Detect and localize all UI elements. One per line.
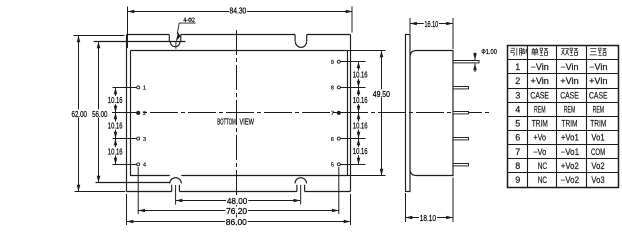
mounting notch top-right <box>295 35 307 48</box>
svg-text:Vo2: Vo2 <box>591 161 604 171</box>
svg-text:TRIM: TRIM <box>532 119 548 129</box>
dim 76.20 <box>138 210 339 212</box>
svg-text:7: 7 <box>515 147 520 157</box>
table header glyphs: san lu <box>590 49 598 55</box>
dim 62.00 extension lines <box>74 36 126 192</box>
mounting notch top-left <box>169 35 181 47</box>
dim 18.10 extension lines <box>406 178 454 223</box>
svg-text:6: 6 <box>331 137 334 143</box>
table pin number column <box>515 62 520 185</box>
svg-text:Vo3: Vo3 <box>591 175 604 185</box>
svg-text:−Vin: −Vin <box>589 62 607 72</box>
dim 49.50 label <box>372 90 390 99</box>
table header glyphs: 引脚 <box>511 48 527 56</box>
pin 6 <box>331 137 340 143</box>
side pin 8 <box>453 87 469 89</box>
side view body <box>410 51 453 176</box>
flange outline bottom view <box>127 35 351 192</box>
svg-text:3: 3 <box>515 91 520 101</box>
dim 62.00 label <box>71 109 88 119</box>
svg-text:2: 2 <box>515 76 520 86</box>
pin 4 <box>137 163 146 169</box>
side pin 9 <box>453 61 479 63</box>
dim phi1.00 arrows <box>474 53 476 73</box>
dim 16.10 <box>410 23 453 25</box>
dim 84.30 label <box>229 7 247 16</box>
flange lip line bottom <box>96 182 171 184</box>
dim 56.00 label <box>91 109 108 119</box>
svg-text:8: 8 <box>515 161 520 171</box>
svg-text:4-Φ2: 4-Φ2 <box>183 17 195 24</box>
svg-text:5: 5 <box>515 119 520 129</box>
side pin 5 <box>453 164 469 166</box>
vertical centerline <box>236 30 238 225</box>
svg-text:10.16: 10.16 <box>353 96 368 105</box>
dim 76.20 label <box>225 207 248 217</box>
svg-text:1: 1 <box>515 62 520 72</box>
svg-text:16.10: 16.10 <box>425 20 439 29</box>
BOTTOM VIEW label <box>217 117 254 127</box>
pin 9 <box>331 60 340 66</box>
dim labels 10.16 left <box>108 96 125 156</box>
left pin extension lines <box>113 88 137 165</box>
right pin extension lines <box>341 62 366 165</box>
svg-text:4: 4 <box>515 105 520 115</box>
svg-text:+Vin: +Vin <box>531 76 549 86</box>
dim 84.30 extension lines <box>128 7 353 49</box>
dim 86.00 <box>127 221 351 223</box>
svg-text:9: 9 <box>331 60 334 66</box>
svg-text:10.16: 10.16 <box>108 122 123 131</box>
table column single <box>530 62 549 185</box>
svg-text:10.16: 10.16 <box>108 96 123 105</box>
pin 2 <box>137 111 146 117</box>
dim 49.50 extension lines <box>348 51 386 176</box>
svg-text:CASE: CASE <box>589 91 608 101</box>
svg-text:CASE: CASE <box>560 91 579 101</box>
table header glyphs: shuang lu <box>561 49 569 56</box>
svg-text:4: 4 <box>143 163 146 169</box>
svg-text:−Vo: −Vo <box>533 147 546 157</box>
svg-text:COM: COM <box>591 147 605 157</box>
dim 48.00 label <box>226 196 248 206</box>
svg-text:6: 6 <box>515 133 520 143</box>
svg-text:62.00: 62.00 <box>72 110 88 119</box>
pin table grid <box>508 46 619 188</box>
dim 86.00 label <box>225 218 248 228</box>
dim 56.00 <box>98 42 100 183</box>
left chain 10.16 dimension line <box>115 88 117 165</box>
pin 3 <box>137 137 146 143</box>
svg-text:10.16: 10.16 <box>108 147 123 156</box>
svg-text:7: 7 <box>331 111 334 117</box>
svg-text:48.00: 48.00 <box>227 197 248 206</box>
svg-text:+Vo1: +Vo1 <box>561 133 579 143</box>
body outline bottom view <box>131 51 348 176</box>
svg-text:REM: REM <box>534 105 546 115</box>
svg-text:VIEW: VIEW <box>240 117 255 127</box>
svg-text:10.16: 10.16 <box>353 122 368 131</box>
svg-text:5: 5 <box>331 163 334 169</box>
svg-text:18.10: 18.10 <box>420 214 437 223</box>
svg-text:NC: NC <box>538 161 548 171</box>
table column triple <box>589 62 608 185</box>
table column dual <box>560 62 579 185</box>
dim 18.10 <box>406 217 454 219</box>
svg-text:10.16: 10.16 <box>353 147 368 156</box>
mounting notch bottom-right <box>295 178 307 192</box>
svg-text:10.16: 10.16 <box>353 71 368 80</box>
dim 16.10 label <box>424 19 439 28</box>
dim 48.00 <box>176 200 301 202</box>
horizontal centerline <box>112 112 491 114</box>
pin 8 <box>331 86 340 92</box>
svg-text:Φ1.00: Φ1.00 <box>481 47 497 56</box>
svg-text:−Vin: −Vin <box>560 62 578 72</box>
pin 1 <box>137 86 146 92</box>
svg-text:3: 3 <box>143 137 146 143</box>
svg-text:−Vo1: −Vo1 <box>561 147 580 157</box>
svg-text:56.00: 56.00 <box>92 110 108 119</box>
dim 49.50 <box>381 51 383 176</box>
svg-text:86.00: 86.00 <box>226 218 247 227</box>
svg-text:REM: REM <box>593 105 605 115</box>
mounting notch bottom-left <box>170 178 182 192</box>
svg-text:−Vin: −Vin <box>531 62 549 72</box>
table header glyph lu (road) x3 <box>540 48 548 55</box>
svg-text:BOTTOM: BOTTOM <box>217 117 235 127</box>
table header glyphs: dan lu <box>531 48 539 56</box>
side pin 6 <box>453 138 469 140</box>
dim phi1.00 label <box>481 47 497 56</box>
svg-text:8: 8 <box>331 86 334 92</box>
side view baseplate flange <box>406 35 411 192</box>
svg-text:TRIM: TRIM <box>562 119 578 129</box>
svg-text:Vo1: Vo1 <box>591 133 604 143</box>
right chain 10.16 dimension line <box>358 62 360 165</box>
dim labels 10.16 right <box>352 70 368 156</box>
dim 84.30 <box>128 11 353 13</box>
svg-text:TRIM: TRIM <box>590 119 606 129</box>
svg-text:1: 1 <box>143 86 146 92</box>
svg-text:CASE: CASE <box>530 91 549 101</box>
svg-text:76.20: 76.20 <box>226 207 247 216</box>
svg-text:NC: NC <box>538 175 548 185</box>
pin 7 <box>331 111 341 117</box>
side pin 7 <box>453 112 469 114</box>
svg-text:+Vo2: +Vo2 <box>561 161 579 171</box>
flange lip line top <box>94 41 186 43</box>
svg-text:84.30: 84.30 <box>230 7 247 16</box>
dim 16.10 extension lines <box>410 18 453 49</box>
svg-text:2: 2 <box>143 111 146 117</box>
svg-text:9: 9 <box>515 175 520 185</box>
pin 5 <box>331 163 340 169</box>
dim 18.10 label <box>419 213 437 223</box>
dim 62.00 <box>78 36 80 192</box>
svg-text:REM: REM <box>564 105 576 115</box>
svg-text:−Vo2: −Vo2 <box>561 175 580 185</box>
svg-text:+Vin: +Vin <box>560 76 578 86</box>
bottom dim extension lines <box>127 167 351 225</box>
svg-text:49.50: 49.50 <box>373 90 390 99</box>
leader 4-phi2 <box>176 23 196 49</box>
svg-text:+Vo: +Vo <box>533 133 546 143</box>
svg-text:+Vin: +Vin <box>589 76 607 86</box>
